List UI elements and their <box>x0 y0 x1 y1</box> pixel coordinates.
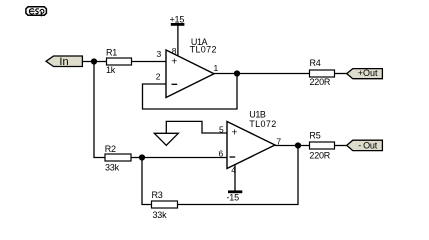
wire: R4 to +Out tag <box>335 73 347 75</box>
ground <box>154 133 178 145</box>
svg-text:+15: +15 <box>170 14 185 24</box>
wire: feedback U1A output to pin 2 <box>143 74 238 110</box>
node: R2/R3 junction <box>139 154 145 160</box>
svg-text:33k: 33k <box>153 210 168 220</box>
resistor R2 <box>105 144 131 173</box>
wire: U1A output to R4 <box>214 73 310 75</box>
svg-text:R1: R1 <box>106 47 117 57</box>
wire: R2 to U1B pin 6 <box>131 157 227 159</box>
wire: pin 4 to -15 rail <box>234 165 236 192</box>
wire: U1B output to R5 <box>275 145 310 147</box>
svg-text:In: In <box>59 56 68 68</box>
node: input junction <box>91 58 97 64</box>
svg-text:1k: 1k <box>106 65 116 75</box>
output tag +Out <box>347 68 383 79</box>
svg-text:TL072: TL072 <box>190 44 217 54</box>
op-amp U1A <box>166 37 217 98</box>
wire: input junction down to R2 <box>94 62 105 158</box>
svg-text:2: 2 <box>156 71 161 81</box>
svg-text:5: 5 <box>219 124 224 134</box>
svg-text:R5: R5 <box>309 131 320 141</box>
svg-text:8: 8 <box>172 46 177 56</box>
wire: R1 to U1A pin 3 <box>132 61 167 63</box>
node: U1A output junction <box>234 70 240 76</box>
svg-text:-15: -15 <box>227 192 240 202</box>
wire: R5 to -Out tag <box>335 145 347 147</box>
svg-text:220R: 220R <box>309 151 330 161</box>
svg-text:1: 1 <box>214 63 219 73</box>
esp logo <box>26 7 47 17</box>
resistor R4 <box>310 58 335 87</box>
resistor R5 <box>309 131 334 161</box>
wire: ground to U1B pin 5 <box>166 121 227 133</box>
svg-text:R2: R2 <box>105 144 116 154</box>
resistor R3 <box>152 190 178 220</box>
wire: pin 8 to +15 rail <box>177 25 179 56</box>
power +15 <box>170 14 185 24</box>
svg-text:TL072: TL072 <box>249 119 276 129</box>
svg-text:+: + <box>171 55 177 67</box>
svg-text:6: 6 <box>219 148 224 158</box>
svg-text:R4: R4 <box>310 58 321 68</box>
svg-text:3: 3 <box>157 49 162 59</box>
svg-text:+Out: +Out <box>358 68 378 78</box>
svg-text:+: + <box>231 126 237 138</box>
svg-text:220R: 220R <box>310 77 331 87</box>
op-amp U1B <box>227 110 277 169</box>
wire: In tag to R1 <box>82 61 106 63</box>
svg-text:R3: R3 <box>152 190 163 200</box>
node: U1B output junction <box>295 142 301 148</box>
wire: junction down to R3 <box>142 158 152 205</box>
svg-text:- Out: - Out <box>358 141 378 151</box>
svg-text:33k: 33k <box>105 162 120 172</box>
input tag In <box>46 56 82 68</box>
resistor R1 <box>106 47 132 75</box>
wire: R3 feedback to U1B output <box>178 146 299 205</box>
svg-text:7: 7 <box>276 136 281 146</box>
output tag -Out <box>347 140 383 151</box>
power -15 <box>227 192 243 203</box>
